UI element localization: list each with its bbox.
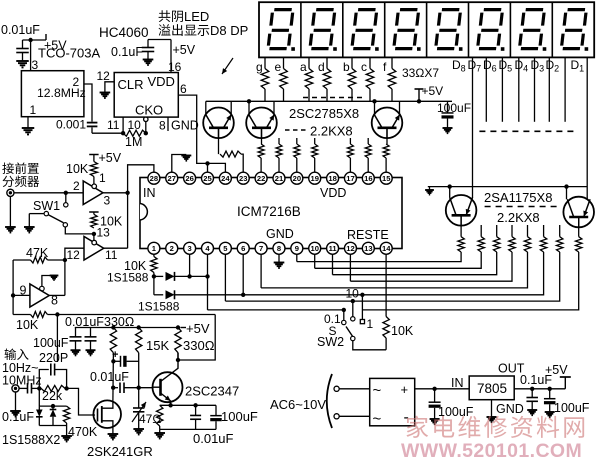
resistor 33ohm (b): [348, 69, 356, 90]
pin 10: [309, 242, 321, 254]
digit D3 segments: [478, 10, 503, 49]
svg-text:0.01uF: 0.01uF: [90, 370, 129, 384]
wire TCO pin1 to ground: [27, 117, 29, 128]
power +5V: [93, 155, 95, 162]
digit D1 segments: [561, 10, 586, 49]
ground: [443, 127, 453, 129]
svg-text:ICM7216B: ICM7216B: [237, 204, 301, 219]
ground: [143, 59, 154, 61]
pin 11: [327, 242, 339, 254]
svg-text:10K: 10K: [16, 318, 39, 332]
ground: [5, 226, 16, 228]
wire bus (pin10): [315, 252, 482, 268]
wire pin27 to ground: [172, 155, 187, 173]
svg-text:AC6~10V: AC6~10V: [270, 397, 326, 412]
pin 9: [291, 242, 303, 254]
ground: [274, 262, 285, 264]
wire segment d: [326, 57, 328, 69]
wire pin11 down: [332, 254, 334, 275]
svg-text:1: 1: [99, 171, 106, 185]
svg-text:RESTE: RESTE: [347, 228, 389, 242]
ground: [16, 60, 29, 62]
wire SW2 pole to 10K: [353, 341, 386, 350]
svg-text:~: ~: [373, 382, 382, 399]
svg-text:0.001: 0.001: [56, 118, 86, 132]
resistors 2.2K digit bank: [458, 237, 464, 252]
wire 7805 GND: [491, 400, 493, 417]
AC source brace: [327, 374, 332, 428]
ground: [86, 349, 96, 351]
wire collector feedback leg: [178, 315, 215, 361]
wire emitter rail: [160, 404, 216, 406]
svg-text:1: 1: [30, 103, 37, 117]
wire pin8 to ground: [278, 254, 280, 263]
ground: [108, 433, 119, 435]
wire pin9 down: [296, 254, 298, 262]
switch SW2 contact 0.1: [343, 304, 362, 315]
wire pin4 down to bus8: [207, 254, 209, 310]
ground: [50, 275, 59, 277]
resistor 33ohm (d): [323, 69, 331, 90]
svg-text:25: 25: [203, 174, 212, 183]
inverter U4c: [30, 284, 49, 307]
ground: [545, 411, 555, 413]
switch SW2 contact 10: [351, 299, 355, 303]
wire TCO pin2 to 0.001 cap: [84, 84, 92, 122]
svg-text:2SK241GR: 2SK241GR: [87, 444, 153, 459]
wire 10K row to 2SC2347 collector tap: [48, 314, 216, 316]
wire feedback left leg: [12, 260, 14, 315]
svg-text:d: d: [318, 60, 325, 74]
wire pin12 down: [349, 254, 351, 281]
ground: [154, 432, 165, 434]
resistors 2.2K bank to IC pins: [258, 144, 264, 158]
svg-text:10MHz: 10MHz: [2, 374, 42, 388]
svg-text:18: 18: [328, 174, 336, 183]
svg-text:3: 3: [188, 244, 192, 253]
wire J1 to ground: [9, 196, 11, 227]
svg-text:13: 13: [97, 226, 111, 240]
svg-text:33ΩX7: 33ΩX7: [402, 66, 439, 80]
wire Q2 emitter up: [273, 101, 275, 114]
svg-text:1: 1: [367, 317, 374, 331]
svg-text:9: 9: [295, 244, 299, 253]
resistor 33ohm (f): [388, 69, 396, 90]
ground: [100, 92, 111, 94]
pin 17: [344, 172, 356, 184]
svg-text:SW2: SW2: [317, 335, 344, 349]
pin 13: [362, 242, 374, 254]
wire pin6 down: [242, 254, 244, 295]
svg-text:3: 3: [104, 194, 111, 208]
wire J1 to inverter input: [14, 192, 83, 194]
svg-text:-: -: [404, 409, 409, 426]
label prescaler input: [2, 163, 14, 175]
transistor Q3 2SC2785: [372, 108, 403, 139]
pin 26: [184, 172, 196, 184]
connector J1 prescaler: [7, 189, 14, 196]
connector J2 input: [12, 385, 19, 392]
wire Q5 collector: [566, 187, 568, 200]
wire Q4 base to resistor: [460, 215, 462, 236]
svg-text:+5V: +5V: [173, 43, 196, 57]
svg-text:CKO: CKO: [135, 103, 163, 118]
wire bus (pin6/diode): [243, 252, 543, 295]
svg-text:+: +: [112, 349, 118, 361]
wire bus (pin11): [333, 252, 497, 275]
pin 16: [362, 172, 374, 184]
svg-text:100uF: 100uF: [221, 409, 258, 424]
svg-text:11: 11: [107, 118, 120, 132]
capacitor 0.01uF decoupling: [90, 328, 92, 337]
svg-text:22: 22: [257, 174, 265, 183]
ground: [71, 349, 81, 351]
wire 22k node to FET gate: [67, 388, 95, 415]
wire +5V collector rail: [206, 100, 452, 102]
resistor 33ohm (a): [305, 69, 313, 90]
pin 19: [309, 172, 321, 184]
wire Q2 collector to rail: [248, 101, 250, 114]
wire pin10 down: [314, 254, 316, 268]
wire segment e: [283, 57, 285, 69]
svg-text:1M: 1M: [125, 135, 142, 149]
svg-text:11: 11: [329, 244, 338, 253]
svg-text:TCO-703A: TCO-703A: [38, 46, 100, 61]
capacitor C1 0.01uF: [22, 40, 24, 49]
ground: [133, 428, 144, 430]
svg-text:26: 26: [185, 174, 193, 183]
resistor 15K: [137, 325, 141, 329]
svg-text:8: 8: [159, 119, 166, 133]
SW1 arm: [48, 215, 63, 223]
wire digit driver collector rail: [428, 186, 587, 188]
pin 15: [380, 172, 392, 184]
pin 8: [273, 242, 285, 254]
wire to TCO pin 3: [30, 40, 32, 71]
label input: [5, 348, 17, 360]
svg-text:17: 17: [346, 174, 354, 183]
digit D5 segments: [394, 10, 419, 49]
svg-text:2: 2: [73, 75, 80, 89]
pin 2: [166, 242, 178, 254]
IC U1 ICM7216B body: [140, 178, 402, 249]
digit D2 segments: [519, 10, 544, 49]
wire D7 column: [472, 57, 474, 198]
svg-text:1S1588X2: 1S1588X2: [2, 433, 60, 447]
terminal AC1: [334, 386, 339, 391]
wire pin14 to 10K: [385, 254, 387, 317]
svg-text:b: b: [343, 60, 350, 74]
svg-text:21: 21: [275, 174, 284, 183]
wire Q3 emitter up: [399, 101, 401, 114]
pin 14: [380, 242, 392, 254]
digit D4 segments: [436, 10, 461, 49]
svg-text:+5V: +5V: [545, 363, 568, 377]
wire segment c: [369, 57, 371, 69]
svg-text:1S1588: 1S1588: [138, 300, 180, 314]
svg-text:2: 2: [170, 244, 174, 253]
wire D1 column: [586, 57, 588, 200]
pin 27: [166, 172, 178, 184]
svg-text:WWW.520101.COM: WWW.520101.COM: [401, 440, 582, 460]
svg-text:IN: IN: [143, 186, 156, 200]
svg-text:g: g: [256, 60, 263, 74]
capacitor 0.1uF out: [531, 389, 533, 398]
svg-text:16: 16: [364, 174, 372, 183]
terminal AC2: [334, 414, 339, 419]
svg-text:VDD: VDD: [148, 74, 175, 89]
wire segment a: [308, 57, 310, 69]
svg-text:11: 11: [105, 248, 118, 262]
svg-text:330Ω: 330Ω: [104, 315, 134, 329]
bridge rectifier BR1: [370, 378, 415, 425]
wire 7805 out: [514, 388, 565, 390]
resistor 1M: [123, 130, 146, 136]
svg-text:0.01uF: 0.01uF: [193, 431, 234, 446]
svg-text:12: 12: [67, 248, 81, 262]
svg-text:13: 13: [364, 244, 372, 253]
svg-text:470K: 470K: [68, 425, 98, 439]
svg-text:7: 7: [259, 244, 263, 253]
svg-text:2SC2785X8: 2SC2785X8: [289, 106, 359, 121]
wire J2 ground: [15, 392, 17, 411]
resistor 33ohm (e): [280, 69, 288, 90]
svg-text:16: 16: [168, 60, 182, 74]
wire FET source to ground: [112, 428, 114, 434]
svg-text:HC4060: HC4060: [99, 25, 149, 40]
svg-text:10K: 10K: [66, 162, 89, 176]
wire pin3 down: [189, 254, 191, 277]
capacitor trimmer: [138, 388, 140, 408]
svg-text:e: e: [275, 60, 282, 74]
svg-text:6: 6: [180, 82, 187, 96]
pin 1: [148, 242, 160, 254]
svg-text:c: c: [361, 60, 367, 74]
SW2 pole: [351, 336, 355, 340]
wire tap down to 220P: [56, 315, 58, 363]
transistor Q6 2SK241 FET: [93, 400, 121, 428]
wire Q4 collector: [449, 187, 451, 198]
svg-text:10K: 10K: [391, 324, 414, 338]
wire inv2 input from 47K node: [65, 248, 84, 260]
inv3 unused input to ground: [40, 286, 45, 291]
svg-text:2.2KX8: 2.2KX8: [497, 210, 540, 225]
wire inv1 out to IN node: [103, 192, 128, 194]
svg-text:0.01uF: 0.01uF: [1, 23, 40, 37]
wire bridge + to 7805: [415, 388, 470, 390]
svg-text:12: 12: [97, 69, 111, 83]
digit D7 segments: [310, 10, 335, 49]
pin 20: [291, 172, 303, 184]
wire pin28 IN route: [128, 165, 154, 193]
dashes repeated transistors: [285, 129, 307, 131]
pin 4: [202, 242, 214, 254]
svg-text:a: a: [300, 60, 307, 74]
digit D8 segments: [268, 10, 293, 49]
node pin3 junction: [28, 38, 32, 42]
wire 0.001 to bottom rail: [91, 127, 93, 133]
svg-text:2SC2347: 2SC2347: [185, 384, 239, 399]
wire pin7 down: [260, 254, 262, 288]
svg-text:+5V: +5V: [186, 321, 210, 336]
power +5V top-left: [45, 34, 47, 40]
svg-text:~: ~: [373, 411, 382, 428]
svg-text:GND: GND: [266, 227, 294, 241]
pin 25: [202, 172, 214, 184]
resistor 2.2K (Q1): [220, 151, 241, 157]
wire segment f: [391, 57, 393, 69]
pin 24: [219, 172, 231, 184]
svg-text:VDD: VDD: [320, 186, 346, 200]
svg-text:220P: 220P: [39, 351, 68, 365]
wires D6-D2 stubs: [485, 57, 487, 122]
svg-text:27: 27: [168, 174, 176, 183]
wire bus (pin7): [261, 252, 527, 288]
power +5V: [418, 89, 420, 101]
wire SW1 pole to inverter2: [65, 227, 94, 234]
svg-text:8: 8: [277, 244, 281, 253]
wire +5V rail bottom: [75, 327, 180, 329]
svg-text:10: 10: [311, 244, 319, 253]
svg-text:2SA1175X8: 2SA1175X8: [484, 190, 552, 205]
display module 8-digit 7-segment: [259, 2, 594, 57]
svg-text:CLR: CLR: [118, 77, 144, 92]
wire segment g: [264, 57, 266, 69]
svg-text:14: 14: [382, 244, 391, 253]
svg-text:28: 28: [150, 174, 158, 183]
svg-text:+5V: +5V: [422, 84, 444, 98]
ground: [22, 127, 35, 129]
wire bus (pin4): [208, 252, 579, 310]
svg-text:2.2KX8: 2.2KX8: [310, 124, 353, 139]
svg-text:GND: GND: [171, 119, 199, 133]
wire Q2 base: [261, 128, 263, 144]
svg-text:15: 15: [382, 174, 391, 183]
svg-text:19: 19: [311, 174, 319, 183]
svg-text:100uF: 100uF: [33, 336, 69, 350]
svg-text:+5V: +5V: [99, 151, 122, 165]
wire bus (pin5): [225, 252, 559, 301]
transistor Q4 2SA1175: [446, 195, 477, 226]
pin 21: [273, 172, 285, 184]
wire bus (pin12): [350, 252, 512, 281]
svg-text:15K: 15K: [146, 338, 169, 353]
wire clamp bottom rail: [39, 425, 66, 427]
pin 5: [219, 242, 231, 254]
svg-text:7805: 7805: [477, 381, 507, 396]
inverter U4b: [84, 237, 104, 261]
wire Q1 collector to rail: [205, 101, 207, 114]
transistor Q5 2SA1175: [563, 197, 594, 228]
pin 22: [255, 172, 267, 184]
wire +5V rail top-left: [23, 39, 47, 41]
switch SW2 contact 1: [360, 293, 364, 297]
svg-text:GND: GND: [496, 402, 524, 416]
svg-text:0.1uF: 0.1uF: [2, 410, 34, 424]
resistor 330 drain: [111, 325, 115, 329]
ground: [181, 155, 191, 157]
wire Q5 base: [578, 217, 580, 237]
wire Q1 base to resistor: [218, 128, 220, 154]
wire inv3 out to 47K: [49, 294, 65, 296]
label common-cathode LED note: [159, 10, 171, 22]
svg-text:10: 10: [346, 287, 360, 301]
wire pin5 down: [224, 254, 226, 301]
ground: [527, 409, 537, 411]
svg-text:24: 24: [221, 174, 230, 183]
power +5V output: [564, 377, 566, 389]
transistor Q2 2SC2785: [246, 108, 277, 139]
resistor 330 collector: [176, 325, 180, 329]
svg-text:12: 12: [346, 244, 354, 253]
resistor 33ohm (c): [366, 69, 374, 90]
wire emitter bottom rail: [160, 428, 216, 430]
dashed D-line continuation: [479, 130, 575, 132]
svg-text:9: 9: [20, 284, 27, 298]
svg-text:2: 2: [73, 179, 80, 193]
transistor Q1 2SC2785: [203, 108, 234, 139]
regulator U5 7805: [469, 376, 514, 400]
power +5V: [181, 327, 187, 329]
wire Q3 base: [386, 128, 388, 144]
svg-text:330Ω: 330Ω: [183, 338, 215, 353]
pin 18: [327, 172, 339, 184]
ground: [430, 418, 440, 420]
ground: [61, 435, 72, 437]
pin 3: [184, 242, 196, 254]
pin 23: [237, 172, 249, 184]
ground: [24, 226, 35, 228]
arrow to D8 display: [222, 58, 233, 74]
svg-text:100uF: 100uF: [554, 401, 590, 415]
wire IN node down to inv2 out: [127, 193, 129, 248]
svg-text:23: 23: [239, 174, 247, 183]
svg-text:+: +: [401, 382, 409, 397]
pin 28: [148, 172, 160, 184]
svg-text:6: 6: [241, 244, 245, 253]
wire segment b: [351, 57, 353, 69]
svg-text:0.1uF: 0.1uF: [111, 45, 143, 59]
watermark chinese: [406, 416, 428, 438]
digit D6 segments: [352, 10, 377, 49]
pin 6: [237, 242, 249, 254]
ground: [425, 189, 434, 191]
svg-text:D8 DP: D8 DP: [210, 23, 248, 38]
ground: [487, 416, 497, 418]
svg-text:LED: LED: [184, 9, 209, 24]
svg-text:0.01uF: 0.01uF: [65, 315, 104, 329]
dashed continuation: [303, 97, 363, 99]
pin 7: [255, 242, 267, 254]
ground: [10, 410, 21, 412]
wire drain column: [112, 353, 115, 401]
wire inv2 out: [104, 247, 128, 249]
svg-text:20: 20: [293, 174, 301, 183]
wire Q1 emitter up: [230, 101, 232, 114]
pin 12: [344, 242, 356, 254]
svg-text:1S1588: 1S1588: [107, 271, 149, 285]
inverter U4a: [83, 181, 103, 205]
wire bus D (pin9): [297, 252, 461, 262]
svg-text:IN: IN: [451, 376, 464, 390]
resistor 33ohm (g): [261, 69, 269, 90]
wire Q3 collector to rail: [374, 101, 376, 114]
